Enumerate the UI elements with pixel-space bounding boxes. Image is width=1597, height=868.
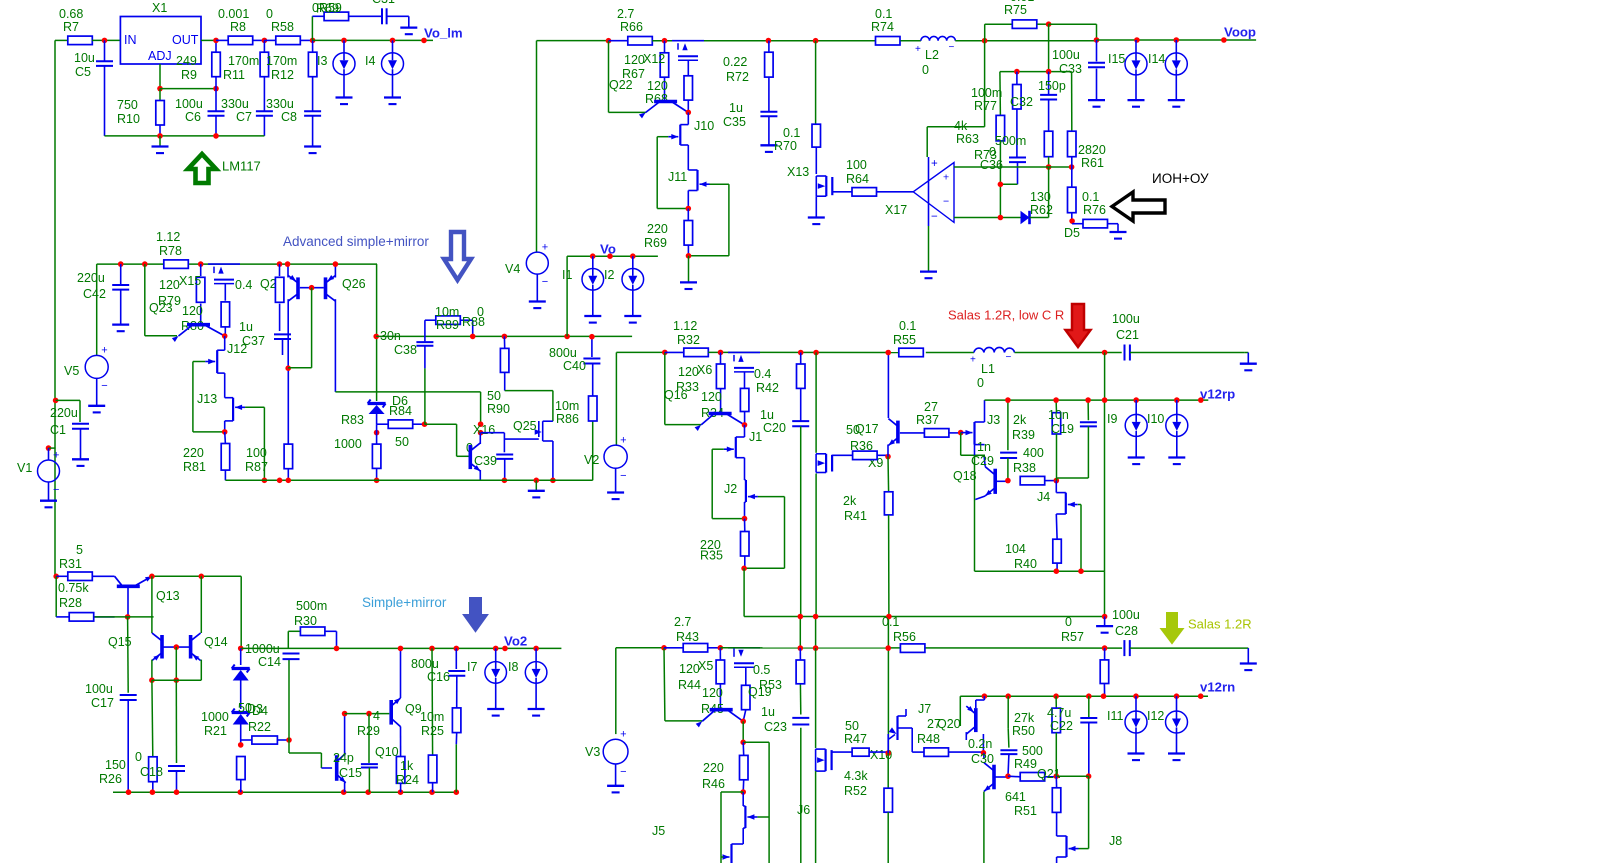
svg-text:0: 0 — [977, 376, 984, 390]
resistor R68 — [687, 60, 689, 76]
svg-text:150: 150 — [105, 758, 126, 772]
svg-text:J2: J2 — [724, 482, 737, 496]
node dot I3 — [341, 38, 347, 44]
node dot R46 top — [740, 740, 746, 746]
resistor R75 — [984, 24, 986, 41]
diode D5 — [1021, 211, 1030, 224]
svg-text:120: 120 — [678, 365, 699, 379]
svg-text:J11: J11 — [668, 170, 687, 184]
svg-text:R46: R46 — [702, 777, 725, 791]
current source I15 — [1135, 40, 1137, 53]
ground under I11 — [1128, 752, 1145, 754]
resistor R70 — [815, 41, 817, 125]
svg-text:+: + — [915, 44, 921, 55]
resistor R35 — [744, 519, 746, 532]
capacitor C15 — [368, 714, 370, 763]
svg-text:R41: R41 — [844, 509, 867, 523]
svg-text:800u: 800u — [411, 657, 439, 671]
svg-text:R76: R76 — [1083, 203, 1106, 217]
node dot rail R82col — [277, 478, 283, 484]
node dot railA C28 — [1102, 614, 1108, 620]
capacitor C42 — [120, 264, 122, 285]
svg-text:27: 27 — [924, 400, 938, 414]
svg-text:I14: I14 — [1148, 52, 1165, 66]
capacitor 150p — [1048, 72, 1050, 95]
node dot R76 — [1069, 218, 1075, 224]
node dot R55 left — [885, 350, 891, 356]
resistor R57 — [1104, 648, 1106, 660]
capacitor C20 — [792, 420, 809, 422]
resistor R21 — [237, 757, 246, 780]
wire Q27 collector to bases — [287, 299, 289, 368]
wire long vertical x376 — [376, 264, 378, 336]
node dot R46 bottom — [740, 789, 746, 795]
ground under I3 — [336, 96, 353, 98]
resistor under 150p — [1044, 131, 1053, 157]
svg-text:I12: I12 — [1147, 709, 1164, 723]
svg-text:220: 220 — [703, 761, 724, 775]
svg-text:1000: 1000 — [334, 437, 362, 451]
svg-text:0.1: 0.1 — [875, 7, 892, 21]
node dot R90 top — [502, 334, 508, 340]
svg-text:C32: C32 — [1010, 95, 1033, 109]
svg-text:500m: 500m — [995, 134, 1026, 148]
resistor R76 vertical — [1071, 167, 1073, 187]
svg-text:2.7: 2.7 — [617, 7, 634, 21]
capacitor C22 — [1088, 696, 1090, 717]
capacitor C6 — [215, 89, 217, 111]
svg-text:C15: C15 — [339, 766, 362, 780]
svg-text:R81: R81 — [183, 460, 206, 474]
svg-text:R25: R25 — [421, 724, 444, 738]
wire J10 gate column — [657, 136, 668, 138]
jfet J13 — [232, 398, 234, 421]
resistor R90 — [503, 336, 505, 348]
svg-text:R57: R57 — [1061, 630, 1084, 644]
wire Q15 collector down — [151, 660, 153, 681]
capacitor C14 — [283, 653, 300, 655]
svg-text:J4: J4 — [1037, 490, 1050, 504]
node dot v12rn end — [1198, 693, 1204, 699]
wire J4 source to R40 — [1055, 514, 1058, 539]
svg-text:R84: R84 — [389, 404, 412, 418]
ground under C35 — [760, 144, 777, 146]
resistor R86 — [589, 396, 598, 421]
ground main rail right — [1244, 352, 1248, 354]
mosfet X15 — [208, 263, 240, 265]
green arrow LM117 — [188, 154, 216, 183]
resistor R76h — [1072, 223, 1083, 225]
svg-text:X12: X12 — [643, 52, 665, 66]
wire sub rail 571 — [975, 570, 1105, 572]
svg-text:V3: V3 — [585, 745, 600, 759]
opamp X17 — [913, 163, 954, 223]
resistor R51 — [1055, 776, 1057, 788]
svg-text:100: 100 — [246, 446, 267, 460]
svg-text:X15: X15 — [179, 274, 201, 288]
svg-text:C18: C18 — [140, 765, 163, 779]
svg-text:V2: V2 — [584, 453, 599, 467]
wire J13 gate — [245, 406, 264, 408]
node dot R58 out — [310, 38, 316, 44]
node dot Q27 rail — [285, 261, 291, 267]
svg-text:Q14: Q14 — [204, 635, 228, 649]
wire opamp -supply to ground — [928, 226, 930, 272]
wire ADJ bottom rail — [105, 135, 265, 137]
svg-text:C5: C5 — [75, 65, 91, 79]
wire opamp +supply — [927, 126, 984, 128]
svg-text:J3: J3 — [987, 413, 1000, 427]
node dot J13 source — [224, 421, 226, 432]
svg-text:C14: C14 — [258, 655, 281, 669]
ground under I9 — [1128, 456, 1145, 458]
svg-text:−: − — [949, 42, 955, 53]
svg-text:R24: R24 — [396, 773, 419, 787]
svg-text:2820: 2820 — [1078, 143, 1106, 157]
mosfet X13 — [815, 176, 817, 196]
node dot R47 right — [885, 750, 891, 756]
resistor R47 — [832, 751, 853, 753]
transistor Q16 — [709, 412, 732, 416]
voltage source V2 — [616, 351, 664, 353]
wire J7 source to R48 — [898, 727, 913, 729]
yellow arrow salas 1.2R — [1162, 613, 1183, 643]
node dot C32 top — [1014, 69, 1020, 75]
node dot R35 bottom — [741, 566, 747, 572]
svg-text:100u: 100u — [1052, 48, 1080, 62]
node dot gnd rail — [534, 478, 540, 484]
node dot base node — [174, 677, 180, 683]
svg-text:R31: R31 — [59, 557, 82, 571]
svg-text:0.5: 0.5 — [753, 663, 770, 677]
resistor R55 — [899, 348, 924, 357]
wire Q10 coll row — [345, 713, 390, 715]
svg-text:R58: R58 — [271, 20, 294, 34]
svg-text:Q18: Q18 — [953, 469, 977, 483]
wire R35 to rail A — [743, 568, 745, 616]
svg-text:120: 120 — [647, 79, 668, 93]
svg-text:0.4: 0.4 — [754, 367, 771, 381]
svg-text:v12rp: v12rp — [1200, 387, 1235, 402]
capacitor C7 — [256, 110, 273, 112]
wire gate rail mid — [335, 391, 480, 393]
transistor Q13 — [117, 584, 140, 588]
inductor L1 — [974, 347, 1015, 352]
mosfet X6 — [728, 351, 760, 353]
wire Q27 emitter — [287, 264, 289, 277]
regulator X1 LM117 box — [120, 17, 201, 65]
svg-text:R72: R72 — [726, 70, 749, 84]
capacitor C38 — [424, 320, 426, 341]
svg-text:641: 641 — [1005, 790, 1026, 804]
svg-text:500: 500 — [1022, 744, 1043, 758]
svg-text:C8: C8 — [281, 110, 297, 124]
wire riser railA to railB x816 — [815, 617, 817, 649]
node dot x816 rail — [813, 350, 819, 356]
svg-text:330u: 330u — [266, 97, 294, 111]
ground under R69 — [688, 256, 690, 283]
wire V4 riser — [536, 41, 538, 252]
zener D3 — [240, 648, 242, 665]
svg-text:100u: 100u — [175, 97, 203, 111]
node dot C30 row — [981, 750, 987, 756]
svg-text:Advanced simple+mirror: Advanced simple+mirror — [283, 234, 429, 249]
ground under I7 — [487, 708, 504, 710]
node dot v12rp end — [1198, 397, 1204, 403]
resistor R46 — [742, 742, 745, 755]
voltage source V4 — [526, 252, 548, 274]
transistor Q19 — [710, 708, 733, 712]
node dot R70 top — [813, 38, 819, 44]
svg-text:C17: C17 — [91, 696, 114, 710]
svg-text:1.12: 1.12 — [673, 319, 697, 333]
node dot rail C6 — [213, 133, 219, 139]
ground under C33 — [1088, 99, 1105, 101]
svg-text:I8: I8 — [508, 660, 518, 674]
svg-text:R64: R64 — [846, 172, 869, 186]
rail A 616 — [744, 616, 1105, 618]
resistor R10 — [159, 89, 161, 101]
svg-text:+: + — [970, 355, 976, 366]
wire J12 source — [224, 373, 226, 398]
node dot R30 right — [334, 646, 340, 652]
node dot Q9 top — [398, 646, 404, 652]
svg-text:100u: 100u — [1112, 608, 1140, 622]
capacitor C5 — [104, 40, 106, 61]
svg-text:C19: C19 — [1051, 422, 1074, 436]
resistor R12 170m — [308, 52, 317, 76]
svg-text:R70: R70 — [774, 139, 797, 153]
transistor Q22 — [654, 100, 677, 104]
resistor R77 — [999, 72, 1002, 116]
node dot C21 left — [1102, 350, 1108, 356]
svg-text:I15: I15 — [1108, 52, 1125, 66]
wire R22 node to Q10 base — [288, 740, 290, 753]
ground under I15 — [1128, 99, 1145, 101]
node dot R29 top — [366, 711, 372, 717]
svg-text:J5: J5 — [652, 824, 665, 838]
current source I10 — [1176, 400, 1178, 414]
svg-text:120: 120 — [701, 390, 722, 404]
svg-text:C6: C6 — [185, 110, 201, 124]
ground under R10 rail — [159, 136, 161, 147]
inductor L2 — [921, 36, 955, 40]
node dot railA R56col — [886, 614, 892, 620]
black arrow — [1112, 192, 1165, 221]
svg-text:R43: R43 — [676, 630, 699, 644]
svg-text:249: 249 — [176, 54, 197, 68]
node dot OUT — [213, 38, 219, 44]
svg-text:Salas 1.2R, low C R: Salas 1.2R, low C R — [948, 307, 1064, 322]
ground under C1 — [72, 458, 89, 460]
svg-text:0.4: 0.4 — [235, 278, 252, 292]
resistor R36 — [832, 454, 852, 456]
svg-text:I11: I11 — [1107, 709, 1123, 723]
svg-text:750: 750 — [117, 98, 138, 112]
svg-text:Salas 1.2R: Salas 1.2R — [1188, 616, 1252, 631]
svg-text:R36: R36 — [850, 439, 873, 453]
capacitor C21 — [1124, 345, 1126, 361]
svg-text:J1: J1 — [749, 430, 762, 444]
rail B 648 — [720, 647, 1122, 649]
wire Q15/Q14 bases — [162, 646, 191, 648]
node dot X12 drain — [686, 110, 692, 116]
node dots X16 — [478, 421, 484, 427]
node dot I15 — [1134, 37, 1140, 43]
svg-text:0.1: 0.1 — [783, 126, 800, 140]
svg-text:120: 120 — [702, 686, 723, 700]
svg-text:1k: 1k — [400, 759, 414, 773]
jfet J8 — [1065, 836, 1067, 857]
node dot R84 right — [422, 421, 428, 427]
mosfet X10 — [815, 648, 817, 748]
wire J6 column — [799, 684, 801, 715]
svg-text:C39: C39 — [474, 454, 497, 468]
wire J8 gate — [1079, 848, 1089, 850]
svg-text:50: 50 — [395, 435, 409, 449]
jfet J5 lower — [742, 828, 744, 844]
svg-text:I1: I1 — [562, 268, 572, 282]
svg-text:R55: R55 — [893, 333, 916, 347]
svg-text:0.1: 0.1 — [1082, 190, 1099, 204]
wire C32 rail — [1000, 71, 1072, 73]
svg-text:+: + — [620, 729, 626, 741]
node dot v12rn 1056 — [1053, 693, 1059, 699]
node dots bottom rail — [126, 789, 132, 795]
svg-text:0.001: 0.001 — [218, 7, 249, 21]
node dot J2 source — [744, 502, 746, 519]
node dot L2 out — [982, 38, 988, 44]
wire 30n rail — [376, 335, 632, 337]
svg-text:R42: R42 — [756, 381, 779, 395]
svg-text:I9: I9 — [1107, 412, 1117, 426]
wire Q15 emitter riser — [151, 576, 153, 633]
wire Vo rail — [567, 255, 658, 257]
wire Q26 emitter — [334, 264, 336, 277]
current source I8 — [535, 648, 537, 661]
node dot R66 right — [662, 38, 668, 44]
capacitor C37 — [274, 333, 291, 335]
svg-text:X1: X1 — [152, 1, 167, 15]
wire Voop rail — [1097, 39, 1257, 41]
wire J5 gate col — [720, 792, 722, 863]
node dot I7 — [493, 646, 499, 652]
resistor R79 — [200, 264, 202, 276]
resistor R84 — [388, 420, 413, 429]
wire R46 gate branch — [743, 741, 769, 743]
ground under railA C28 — [1104, 617, 1106, 627]
svg-text:0.68: 0.68 — [59, 7, 83, 21]
svg-text:R32: R32 — [677, 333, 700, 347]
node dot Vo label — [607, 253, 613, 259]
svg-text:2k: 2k — [1013, 413, 1027, 427]
svg-text:I7: I7 — [467, 660, 477, 674]
svg-text:R11: R11 — [223, 68, 245, 82]
svg-text:500m: 500m — [296, 599, 327, 613]
svg-text:R40: R40 — [1014, 557, 1037, 571]
svg-text:D5: D5 — [1064, 226, 1080, 240]
resistor R22 — [241, 739, 252, 741]
svg-text:R50: R50 — [1012, 724, 1035, 738]
node dot X9 gate — [885, 454, 891, 460]
capacitor C40 — [591, 337, 593, 357]
capacitor C36 — [1009, 157, 1026, 159]
svg-text:Q20: Q20 — [937, 717, 961, 731]
wire ADJ pin — [159, 64, 161, 89]
svg-text:R74: R74 — [871, 20, 894, 34]
svg-text:100: 100 — [846, 158, 867, 172]
wire Q21 base row — [1056, 775, 1088, 777]
svg-text:D4: D4 — [252, 704, 268, 718]
svg-text:C29: C29 — [971, 454, 994, 468]
ground under I1 — [584, 315, 601, 317]
svg-text:10m: 10m — [420, 710, 444, 724]
node dot R69 bottom — [686, 253, 692, 259]
node dot R7/C5 — [102, 38, 108, 44]
svg-text:+: + — [931, 158, 938, 170]
node dot Voop end — [1221, 37, 1227, 43]
svg-text:0.22: 0.22 — [723, 55, 747, 69]
resistor R42 snubber — [798, 350, 804, 356]
svg-text:−: − — [931, 211, 938, 223]
transistor Q20 — [974, 708, 978, 732]
node dot v12rp I9 — [1133, 397, 1139, 403]
svg-text:J6: J6 — [797, 803, 810, 817]
wire Q13 rail corner down — [240, 576, 242, 648]
current source I11 — [1135, 696, 1137, 711]
node dot J3 gate — [958, 430, 964, 436]
svg-text:5: 5 — [76, 543, 83, 557]
resistor R28 — [56, 616, 69, 618]
svg-text:100u: 100u — [1112, 312, 1140, 326]
svg-text:R48: R48 — [917, 732, 940, 746]
svg-text:IN: IN — [124, 33, 137, 47]
wire left input — [55, 39, 68, 41]
svg-text:R69: R69 — [316, 2, 339, 16]
node dot R87 bottom — [262, 478, 268, 484]
ground under C8 — [304, 145, 321, 147]
node dot D6 anode — [374, 430, 380, 436]
node dot v12rn 984 — [982, 693, 988, 699]
node dot R49 right — [1054, 773, 1060, 779]
svg-text:0.1: 0.1 — [899, 319, 916, 333]
wire V3 riser — [615, 648, 617, 734]
ground mid rail — [535, 480, 537, 491]
svg-text:C38: C38 — [394, 343, 417, 357]
svg-text:X13: X13 — [787, 165, 809, 179]
wire Q14 emitter riser — [200, 576, 202, 633]
svg-text:Q22: Q22 — [609, 78, 633, 92]
node dot C39 bottom — [502, 478, 508, 484]
wire C21 riser — [1104, 353, 1106, 401]
svg-text:R77: R77 — [974, 99, 997, 113]
node dot bases — [309, 285, 315, 291]
current source I12 — [1176, 696, 1178, 711]
svg-text:Q16: Q16 — [664, 388, 688, 402]
wire J3 source — [960, 433, 962, 456]
svg-text:R86: R86 — [556, 412, 579, 426]
svg-text:C7: C7 — [236, 110, 252, 124]
wire R86 col — [592, 421, 594, 480]
capacitor C39 — [481, 432, 505, 434]
node dot R88 — [470, 334, 476, 340]
svg-text:220: 220 — [183, 446, 204, 460]
wire base to collector — [311, 288, 313, 368]
svg-text:170m: 170m — [228, 54, 259, 68]
svg-text:R49: R49 — [1014, 757, 1037, 771]
svg-text:J7: J7 — [918, 702, 931, 716]
svg-text:−: − — [53, 484, 59, 496]
